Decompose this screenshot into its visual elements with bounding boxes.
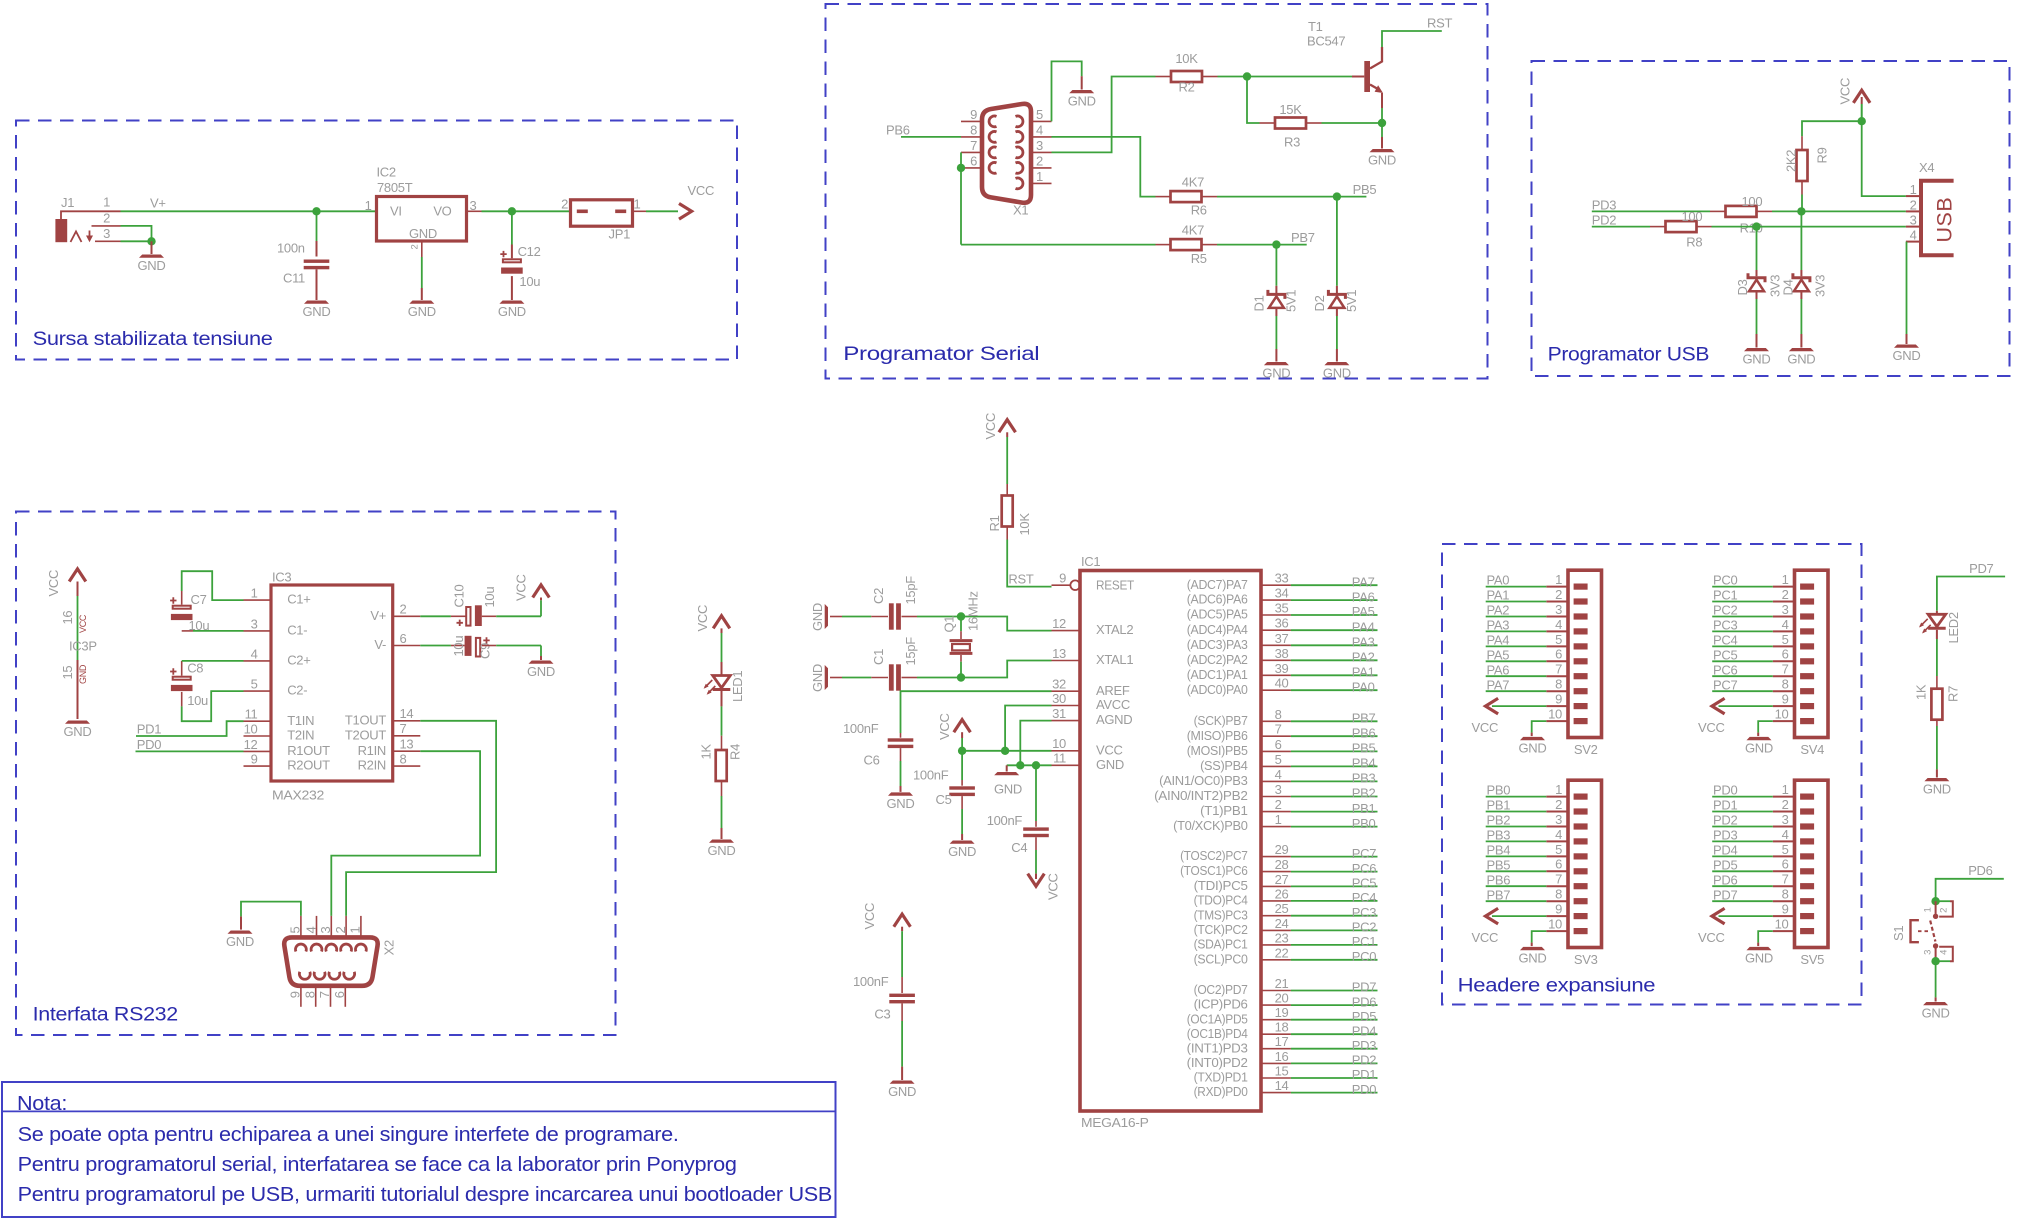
- svg-text:PA1: PA1: [1487, 588, 1510, 603]
- IC3 pin 1 C1+: [244, 599, 272, 601]
- svg-text:8: 8: [1555, 887, 1562, 902]
- svg-text:PB4: PB4: [1487, 843, 1511, 858]
- svg-text:SV5: SV5: [1800, 952, 1824, 967]
- wire PB5 junction to D2: [1336, 197, 1338, 286]
- ground symbol at D1: [1264, 362, 1289, 365]
- wire net PB6 from IC1 pin 7: [1291, 735, 1378, 737]
- wire net PB1 from IC1 pin 2: [1291, 811, 1378, 813]
- svg-text:C6: C6: [864, 753, 880, 768]
- svg-text:LED1: LED1: [730, 671, 745, 702]
- svg-text:(INT0)PD2: (INT0)PD2: [1187, 1055, 1248, 1070]
- wire C5 to GND: [961, 796, 963, 809]
- svg-text:PC0: PC0: [1713, 573, 1737, 588]
- wire IC3 pin13 R1IN to X2 pin3: [331, 751, 480, 916]
- svg-text:Q1: Q1: [942, 616, 957, 633]
- X2 pin 6: [344, 986, 346, 1007]
- wire C8 bottom to IC3 pin5: [181, 692, 183, 707]
- svg-text:39: 39: [1275, 661, 1289, 676]
- svg-text:4K7: 4K7: [1182, 175, 1204, 190]
- X2 pin 3: [330, 916, 332, 938]
- X1 pin 4: [1031, 136, 1052, 138]
- svg-text:PB1: PB1: [1352, 801, 1376, 816]
- IC1 pin 17 (INT1)PD3: [1261, 1048, 1291, 1050]
- wire C12 to VO: [511, 211, 513, 244]
- wire C4 to VCC (down arrow): [1035, 837, 1037, 850]
- ground symbol at S1: [1923, 1002, 1948, 1005]
- wire net PB4 from IC1 pin 5: [1291, 765, 1378, 767]
- junction PB5/D2: [1333, 192, 1341, 200]
- svg-text:PC2: PC2: [1713, 603, 1737, 618]
- wire net PB5 from IC1 pin 6: [1291, 750, 1378, 752]
- IC1 pin 21 (OC2)PD7: [1261, 990, 1291, 992]
- X4 pin 3: [1906, 226, 1919, 228]
- svg-text:C11: C11: [283, 271, 305, 286]
- svg-text:PC1: PC1: [1352, 934, 1376, 949]
- svg-text:PD5: PD5: [1713, 857, 1737, 872]
- svg-text:PD6: PD6: [1968, 863, 1992, 878]
- wire LED1 to R4: [721, 691, 723, 706]
- wire net PD3 to SV5 pin 4: [1712, 840, 1773, 842]
- wire net PC5 from IC1 pin 27: [1291, 885, 1378, 887]
- svg-text:1: 1: [1923, 907, 1934, 912]
- IC1 pin 9 RESET (with inversion bubble): [1052, 584, 1071, 586]
- wire net PD5 to SV5 pin 6: [1712, 870, 1773, 872]
- ground symbol at C5: [950, 841, 975, 844]
- svg-text:4: 4: [1938, 950, 1949, 955]
- svg-text:GND: GND: [948, 844, 976, 859]
- svg-text:26: 26: [1275, 886, 1289, 901]
- svg-text:GND: GND: [1323, 366, 1351, 381]
- wire R3 to T1 emitter: [1322, 122, 1383, 124]
- wire X1 pin4 to R6 row: [1052, 137, 1156, 197]
- junction R9/D4 on PD3 net: [1797, 207, 1805, 215]
- resistor R10 100: [1710, 210, 1725, 212]
- X4 pin 2: [1906, 210, 1919, 212]
- VCC arrow (Programator USB): [1861, 104, 1863, 121]
- wire net PD2 to SV5 pin 3: [1712, 826, 1773, 828]
- svg-text:2: 2: [333, 927, 348, 934]
- wire PB7 junction to D1: [1275, 245, 1277, 286]
- svg-text:PB7: PB7: [1291, 230, 1315, 245]
- svg-text:2: 2: [1782, 797, 1789, 812]
- svg-text:IC3P: IC3P: [69, 639, 97, 654]
- svg-text:2: 2: [1036, 154, 1043, 169]
- ground symbol at D2: [1324, 362, 1349, 365]
- GND at SV5 pin 10: [1758, 931, 1773, 943]
- svg-text:PC0: PC0: [1352, 949, 1376, 964]
- ground symbol at pin11: [1006, 765, 1008, 771]
- svg-text:PC2: PC2: [1352, 920, 1376, 935]
- svg-text:D4: D4: [1781, 279, 1796, 295]
- wire VCC junction to AVCC riser: [962, 750, 1005, 752]
- svg-text:16: 16: [1275, 1049, 1289, 1064]
- svg-text:10K: 10K: [1175, 51, 1198, 66]
- svg-text:VCC: VCC: [862, 903, 877, 930]
- IC1 pin 33 (ADC7)PA7: [1261, 584, 1291, 586]
- svg-text:AGND: AGND: [1096, 712, 1132, 727]
- svg-text:(TDO)PC4: (TDO)PC4: [1194, 893, 1248, 908]
- svg-text:6: 6: [1555, 647, 1562, 662]
- svg-text:6: 6: [1782, 647, 1789, 662]
- svg-text:5: 5: [1782, 842, 1789, 857]
- svg-text:XTAL2: XTAL2: [1096, 622, 1133, 637]
- svg-text:PB5: PB5: [1487, 857, 1511, 872]
- svg-text:(MOSI)PB5: (MOSI)PB5: [1187, 743, 1248, 758]
- svg-text:8: 8: [302, 991, 317, 998]
- svg-text:VCC: VCC: [983, 413, 998, 440]
- svg-text:5: 5: [1555, 842, 1562, 857]
- svg-text:PB3: PB3: [1487, 828, 1511, 843]
- svg-text:RST: RST: [1427, 16, 1452, 31]
- svg-text:GND: GND: [303, 304, 331, 319]
- svg-text:PD4: PD4: [1713, 843, 1737, 858]
- svg-text:VCC: VCC: [1698, 930, 1725, 945]
- wire net PC2 to SV4 pin 3: [1712, 616, 1773, 618]
- svg-text:D2: D2: [1312, 295, 1327, 311]
- svg-text:PA0: PA0: [1487, 573, 1510, 588]
- svg-text:3: 3: [318, 927, 333, 934]
- wire net PB0 to SV3 pin 1: [1486, 796, 1547, 798]
- IC1 pin 16 (INT0)PD2: [1261, 1062, 1291, 1064]
- svg-text:40: 40: [1275, 676, 1289, 691]
- svg-text:10K: 10K: [1017, 513, 1032, 536]
- svg-text:PC7: PC7: [1352, 846, 1376, 861]
- IC3 pin 2 V+: [393, 615, 421, 617]
- section frame: Interfata RS232: [16, 512, 616, 1036]
- svg-text:USB: USB: [1933, 197, 1957, 243]
- svg-text:6: 6: [1555, 857, 1562, 872]
- svg-text:PC1: PC1: [1713, 588, 1737, 603]
- wire R9 bottom to PD3 net: [1801, 195, 1803, 212]
- svg-text:35: 35: [1275, 601, 1289, 616]
- ground symbol near X1 pin5: [1069, 90, 1094, 93]
- wire PB6 to X1 pin 8: [901, 136, 961, 138]
- IC1 pin 18 (OC1B)PD4: [1261, 1033, 1291, 1035]
- svg-text:1: 1: [1782, 782, 1789, 797]
- wire C3 to GND: [901, 1003, 903, 1021]
- svg-text:C2-: C2-: [287, 683, 307, 698]
- svg-text:2: 2: [561, 197, 568, 212]
- wire net PA3 to SV2 pin 4: [1486, 630, 1547, 632]
- resistor R4 1K: [716, 750, 727, 781]
- svg-text:36: 36: [1275, 616, 1289, 631]
- ground symbol at D3: [1744, 348, 1769, 351]
- IC3 pin 11 T1IN: [244, 720, 272, 722]
- svg-text:12: 12: [244, 737, 258, 752]
- IC1 pin 3 (AIN0/INT2)PB2: [1261, 796, 1291, 798]
- wire C9 to GND: [482, 645, 496, 647]
- svg-text:VI: VI: [390, 204, 402, 219]
- svg-text:PA4: PA4: [1352, 619, 1375, 634]
- svg-text:T1OUT: T1OUT: [345, 712, 386, 727]
- ground symbol at C3: [890, 1081, 915, 1084]
- svg-text:GND: GND: [1519, 950, 1547, 965]
- wire VCC to LED1: [721, 633, 723, 662]
- ground symbol at J1: [151, 241, 153, 254]
- resistor R7 1K: [1931, 689, 1942, 720]
- svg-text:2: 2: [1939, 908, 1950, 913]
- wire junction down to R3: [1247, 77, 1260, 124]
- VCC arrow at JP1: [679, 204, 692, 220]
- svg-text:1: 1: [1782, 572, 1789, 587]
- svg-text:6: 6: [1275, 737, 1282, 752]
- svg-text:D1: D1: [1252, 295, 1267, 311]
- svg-text:33: 33: [1275, 571, 1289, 586]
- IC1 pin 14 (RXD)PD0: [1261, 1092, 1291, 1094]
- svg-text:GND: GND: [1096, 757, 1124, 772]
- IC IC3 MAX232: [271, 585, 393, 781]
- IC1 pin 2 (T1)PB1: [1261, 811, 1291, 813]
- junction C4: [1032, 761, 1040, 769]
- svg-text:27: 27: [1275, 872, 1289, 887]
- IC1 pin 12 XTAL2: [1052, 630, 1081, 632]
- svg-text:8: 8: [970, 123, 977, 138]
- IC2 pin 2 to ground: [421, 243, 423, 258]
- X1 pin 6: [961, 167, 982, 169]
- svg-text:C3: C3: [874, 1007, 890, 1022]
- capacitor C11 100n: [304, 260, 330, 263]
- LED LED2: [1928, 614, 1946, 626]
- voltage regulator IC2 7805T: [377, 197, 467, 242]
- svg-text:2: 2: [410, 244, 421, 249]
- wire X1 pin7/pin6 to R5: [960, 152, 962, 244]
- wire LED2 to R7: [1936, 630, 1938, 639]
- wire X1 pin3 up to R2 row: [1052, 77, 1156, 153]
- junction S1 pin1/pin2: [1931, 897, 1939, 905]
- IC2 pin 3: [468, 210, 482, 212]
- wire C10 to VCC: [482, 615, 496, 617]
- svg-text:5: 5: [1275, 752, 1282, 767]
- svg-text:21: 21: [1275, 976, 1289, 991]
- svg-text:Nota:: Nota:: [17, 1093, 67, 1115]
- wire net PD4 from IC1 pin 18: [1291, 1033, 1378, 1035]
- wire net PB2 to SV3 pin 3: [1486, 826, 1547, 828]
- wire net PB5 to SV3 pin 6: [1486, 870, 1547, 872]
- svg-text:14: 14: [400, 706, 414, 721]
- junction AVCC riser: [1001, 747, 1009, 755]
- resistor R2 10K: [1156, 76, 1172, 78]
- svg-text:R7: R7: [1945, 686, 1960, 702]
- wire net PC5 to SV4 pin 6: [1712, 660, 1773, 662]
- svg-text:1: 1: [1555, 572, 1562, 587]
- junction at J1 gnd: [147, 237, 155, 245]
- wire net PA7 from IC1 pin 33: [1291, 584, 1378, 586]
- svg-text:VCC: VCC: [1472, 720, 1499, 735]
- svg-text:10: 10: [1052, 736, 1066, 751]
- IC1 pin 25 (TMS)PC3: [1261, 915, 1291, 917]
- svg-text:13: 13: [400, 737, 414, 752]
- svg-text:Sursa stabilizata tensiune: Sursa stabilizata tensiune: [33, 329, 273, 350]
- wire IC3 pin14 T1OUT to X2 pin2: [346, 721, 496, 916]
- IC1 pin 11 GND: [1052, 764, 1081, 766]
- svg-text:PD1: PD1: [1713, 798, 1737, 813]
- svg-text:(ADC7)PA7: (ADC7)PA7: [1187, 577, 1248, 592]
- svg-text:PB6: PB6: [1352, 725, 1376, 740]
- wire R10 to X4 pin2: [1772, 210, 1906, 212]
- pin header SV2: [1568, 570, 1602, 737]
- svg-text:C1: C1: [871, 649, 886, 665]
- svg-text:(MISO)PB6: (MISO)PB6: [1187, 728, 1248, 743]
- svg-text:4: 4: [1275, 767, 1282, 782]
- section frame: Headere expansiune: [1442, 544, 1862, 1005]
- svg-text:R5: R5: [1191, 251, 1207, 266]
- svg-text:PC5: PC5: [1352, 876, 1376, 891]
- svg-text:37: 37: [1275, 631, 1289, 646]
- svg-text:4: 4: [1782, 827, 1789, 842]
- svg-text:31: 31: [1052, 706, 1066, 721]
- X1 pin 7: [961, 151, 982, 153]
- svg-text:(INT1)PD3: (INT1)PD3: [1187, 1040, 1248, 1055]
- svg-text:34: 34: [1275, 586, 1289, 601]
- svg-text:T2IN: T2IN: [287, 728, 314, 743]
- wire PD2 to R8: [1592, 226, 1650, 228]
- junction XTAL1/Q1: [957, 673, 965, 681]
- svg-text:(TCK)PC2: (TCK)PC2: [1194, 922, 1248, 937]
- svg-text:15pF: 15pF: [903, 637, 918, 666]
- svg-text:9: 9: [1782, 902, 1789, 917]
- zener diode D1 5V1: [1268, 290, 1285, 299]
- svg-text:PD3: PD3: [1352, 1038, 1376, 1053]
- svg-text:X2: X2: [382, 940, 397, 955]
- wire V+ from J1.1 to C11/IC2: [121, 210, 376, 212]
- svg-text:6: 6: [1782, 857, 1789, 872]
- IC3 pin 7 T2OUT: [393, 735, 421, 737]
- svg-text:15: 15: [1275, 1064, 1289, 1079]
- wire net PA4 from IC1 pin 36: [1291, 629, 1378, 631]
- svg-text:1: 1: [1036, 169, 1043, 184]
- svg-text:C7: C7: [191, 592, 207, 607]
- svg-text:C5: C5: [936, 792, 952, 807]
- svg-text:VCC: VCC: [46, 570, 61, 597]
- wire net PD0 to SV5 pin 1: [1712, 796, 1773, 798]
- svg-text:5V1: 5V1: [1344, 290, 1359, 312]
- svg-text:R2: R2: [1178, 80, 1194, 95]
- svg-text:S1: S1: [1891, 926, 1906, 941]
- svg-text:13: 13: [1052, 646, 1066, 661]
- wire net PA6 from IC1 pin 34: [1291, 599, 1378, 601]
- svg-text:PC4: PC4: [1713, 633, 1737, 648]
- svg-text:GND: GND: [64, 724, 92, 739]
- svg-text:PB5: PB5: [1352, 741, 1376, 756]
- pin header SV3: [1568, 780, 1602, 947]
- VCC arrow at C10: [533, 585, 550, 598]
- svg-text:(OC2)PD7: (OC2)PD7: [1194, 982, 1248, 997]
- wire net PB6 to SV3 pin 7: [1486, 885, 1547, 887]
- svg-text:3: 3: [1910, 213, 1917, 228]
- svg-text:T2OUT: T2OUT: [345, 727, 386, 742]
- svg-text:X1: X1: [1013, 203, 1028, 218]
- svg-text:10: 10: [1775, 917, 1789, 932]
- svg-text:VCC: VCC: [695, 605, 710, 632]
- svg-text:15pF: 15pF: [903, 576, 918, 605]
- wire net PA0 to SV2 pin 1: [1486, 586, 1547, 588]
- svg-text:GND: GND: [887, 796, 915, 811]
- svg-text:V+: V+: [150, 196, 166, 211]
- IC1 pin 24 (TCK)PC2: [1261, 929, 1291, 931]
- svg-text:GND: GND: [810, 664, 825, 692]
- svg-text:PA3: PA3: [1487, 618, 1510, 633]
- svg-text:PA4: PA4: [1487, 633, 1510, 648]
- svg-text:PD1: PD1: [1352, 1067, 1376, 1082]
- resistor R6 4K7: [1156, 196, 1172, 198]
- svg-text:(ADC4)PA4: (ADC4)PA4: [1187, 622, 1248, 637]
- wire net PD7 from IC1 pin 21: [1291, 990, 1378, 992]
- IC3 pin 12 R1OUT: [244, 750, 272, 752]
- pin header SV4: [1795, 570, 1829, 737]
- svg-text:2: 2: [1555, 587, 1562, 602]
- svg-text:PB0: PB0: [1487, 783, 1511, 798]
- VCC arrow at SV4 pin 9: [1719, 705, 1773, 707]
- svg-text:100nF: 100nF: [913, 768, 949, 783]
- svg-text:5: 5: [1782, 632, 1789, 647]
- wire PD6 to S1: [1936, 879, 2004, 898]
- svg-text:17: 17: [1275, 1034, 1289, 1049]
- junction V+ / C11: [312, 207, 320, 215]
- IC1 pin 7 (MISO)PB6: [1261, 735, 1291, 737]
- svg-text:PC4: PC4: [1352, 890, 1376, 905]
- IC1 pin 26 (TDO)PC4: [1261, 900, 1291, 902]
- svg-text:PB7: PB7: [1487, 887, 1511, 902]
- svg-text:LED2: LED2: [1946, 612, 1961, 643]
- GND at SV4 pin 10: [1758, 721, 1773, 733]
- svg-text:PD0: PD0: [137, 737, 161, 752]
- svg-text:PA6: PA6: [1487, 662, 1510, 677]
- wire C2 to XTAL2: [917, 616, 961, 618]
- svg-text:PD6: PD6: [1713, 872, 1737, 887]
- svg-text:100nF: 100nF: [853, 974, 889, 989]
- svg-text:1: 1: [1275, 812, 1282, 827]
- svg-text:GND: GND: [888, 1084, 916, 1099]
- svg-text:VCC: VCC: [1046, 873, 1061, 900]
- wire net PD1 to SV5 pin 2: [1712, 811, 1773, 813]
- svg-text:IC3: IC3: [272, 570, 291, 585]
- svg-text:GND: GND: [994, 782, 1022, 797]
- wire PD7 to LED2: [1937, 577, 2005, 611]
- svg-text:9: 9: [970, 107, 977, 122]
- IC3 pin 10 T2IN: [244, 735, 272, 737]
- svg-text:PD2: PD2: [1713, 813, 1737, 828]
- wire net PD3 from IC1 pin 17: [1291, 1048, 1378, 1050]
- svg-text:(TXD)PD1: (TXD)PD1: [1194, 1070, 1248, 1085]
- X2 pin 1: [360, 916, 362, 938]
- svg-text:(SCK)PB7: (SCK)PB7: [1194, 713, 1248, 728]
- IC1 pin 27 (TDI)PC5: [1261, 885, 1291, 887]
- svg-text:(T1)PB1: (T1)PB1: [1200, 803, 1248, 818]
- junction XTAL2/Q1: [957, 612, 965, 620]
- svg-text:GND: GND: [1923, 782, 1951, 797]
- S1 lever: [1930, 921, 1935, 942]
- svg-text:T1: T1: [1308, 19, 1323, 34]
- wire net PB3 from IC1 pin 4: [1291, 780, 1378, 782]
- X1 pin 5: [1031, 120, 1052, 122]
- svg-text:PA3: PA3: [1352, 635, 1375, 650]
- IC3 pin 9 R2OUT: [244, 765, 272, 767]
- svg-text:(AIN1/OC0)PB3: (AIN1/OC0)PB3: [1159, 773, 1248, 788]
- svg-text:(ADC1)PA1: (ADC1)PA1: [1187, 667, 1248, 682]
- junction emitter/R3: [1378, 119, 1386, 127]
- svg-text:GND: GND: [138, 258, 166, 273]
- svg-text:XTAL1: XTAL1: [1096, 652, 1133, 667]
- svg-text:(ADC2)PA2: (ADC2)PA2: [1187, 652, 1248, 667]
- wire R6 to PB5: [1217, 196, 1337, 198]
- svg-text:7: 7: [1782, 872, 1789, 887]
- svg-text:PB2: PB2: [1487, 813, 1511, 828]
- svg-text:(ADC0)PA0: (ADC0)PA0: [1187, 682, 1248, 697]
- wire net PB7 to SV3 pin 8: [1486, 900, 1547, 902]
- VCC arrow at SV3 pin 9: [1492, 915, 1546, 917]
- wire net PA3 from IC1 pin 37: [1291, 644, 1378, 646]
- X1 pin 9: [961, 120, 982, 122]
